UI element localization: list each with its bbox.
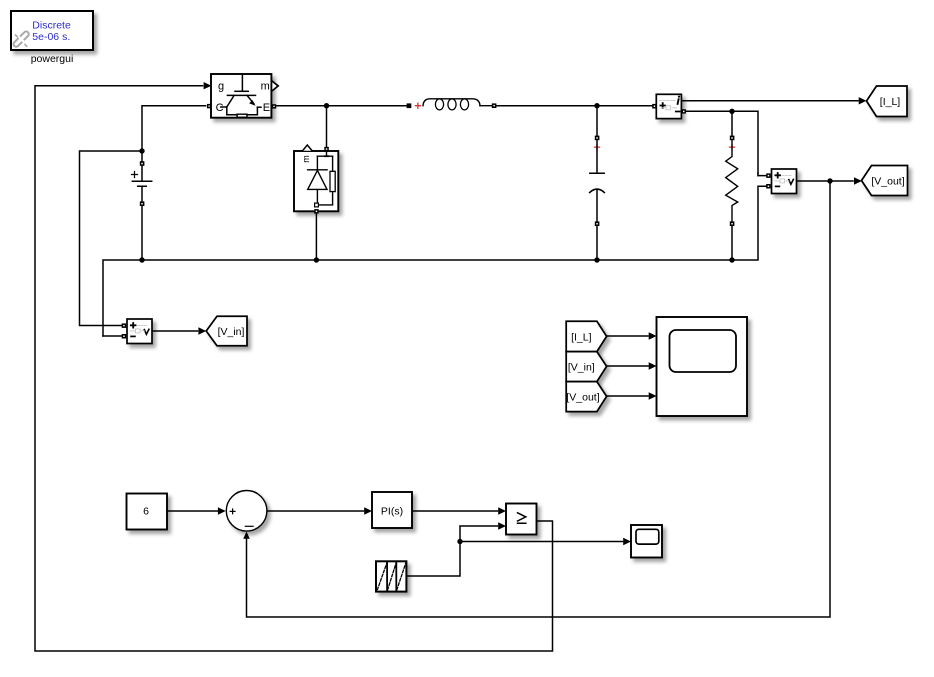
wire gate PWM feedback loop (left rail and bottom rail): [35, 86, 553, 651]
capacitor bottom port square: [595, 221, 600, 226]
svg-text:C: C: [216, 102, 224, 114]
node bus capacitor junction: [594, 257, 599, 262]
svg-text:6: 6: [143, 506, 149, 518]
wire bus stub to V_in minus: [103, 335, 121, 337]
IGBT E port square: [272, 104, 276, 108]
transistor IGBT block: [207, 74, 278, 118]
wire from I_L tag to scope: [607, 335, 648, 337]
arrowhead scope input 2: [649, 362, 657, 369]
from tag V_in: [566, 352, 606, 382]
voltage meas plus port square: [766, 173, 771, 178]
arrowhead into IGBT gate g: [204, 82, 212, 89]
diode internal pin mark: [325, 155, 328, 157]
wire current meas i signal to I_L goto: [681, 100, 858, 102]
sawtooth generator block: [376, 561, 406, 591]
wire from V_in tag to scope: [607, 365, 648, 367]
diode internal node square: [315, 203, 319, 207]
wire current meas minus output to load node: [686, 111, 766, 175]
capacitor plates: [590, 140, 604, 173]
svg-text:powergui: powergui: [31, 53, 74, 65]
diode m port chevron: [302, 145, 312, 151]
wire capacitor top drop: [596, 106, 598, 136]
relational operator block >=: [506, 504, 537, 535]
inductor plus polarity mark: [415, 103, 420, 108]
svg-text:[V_in]: [V_in]: [568, 362, 595, 374]
V_in meas plus port square: [122, 323, 127, 328]
wire V_in measurement output to V_in goto: [152, 330, 198, 332]
arrowhead scope input 3: [649, 392, 657, 399]
wire V_out feedback down and across to sum: [247, 181, 831, 617]
arrowhead into sum bottom input: [243, 532, 250, 539]
wire from V_out tag to scope: [607, 395, 648, 397]
resistor zigzag: [726, 140, 738, 221]
powergui block: [11, 11, 93, 65]
capacitor plus polarity mark: [595, 145, 600, 150]
svg-text:[V_in]: [V_in]: [218, 326, 245, 338]
arrowhead into PI controller: [364, 507, 372, 514]
arrowhead into relational operator input 1: [498, 507, 506, 514]
wire junction battery to V_in plus: [80, 151, 143, 326]
arrowhead inside IGBT at emitter: [249, 100, 255, 106]
node battery-top junction: [139, 148, 144, 153]
svg-text:[I_L]: [I_L]: [880, 96, 901, 108]
capacitor top port square: [595, 136, 600, 141]
current meas minus port square: [682, 109, 686, 113]
inductor right port square: [492, 103, 497, 108]
resistor bottom port square: [730, 221, 735, 226]
from tag V_out: [566, 382, 606, 412]
node PWM scope tap junction: [457, 539, 462, 544]
battery plates: [132, 166, 151, 204]
svg-text:E: E: [263, 102, 270, 114]
node bus diode junction: [314, 257, 319, 262]
arrowhead into I_L goto: [859, 97, 867, 104]
svg-text:PI(s): PI(s): [381, 506, 403, 518]
wire sum to PI controller: [267, 510, 363, 512]
battery DC voltage source: [132, 161, 152, 206]
wire diode bottom drop: [315, 214, 317, 260]
constant block 6: [127, 494, 168, 530]
resistor load R: [726, 136, 738, 226]
wire IGBT E to inductor: [276, 105, 406, 107]
capacitor C: [590, 136, 605, 226]
node load top junction: [729, 109, 734, 114]
node V_out feedback junction: [827, 178, 832, 183]
voltage measurement block V_out: [766, 169, 796, 194]
wire V measurement output to V_out goto: [797, 180, 854, 182]
wire battery top to IGBT C: [142, 106, 206, 162]
arrowhead scope input 1: [649, 332, 657, 339]
svg-text:[V_out]: [V_out]: [871, 175, 904, 187]
svg-text:[I_L]: [I_L]: [571, 332, 592, 344]
scope block: [657, 317, 748, 416]
svg-text:[V_out]: [V_out]: [566, 391, 599, 403]
current measurement block i: [652, 94, 686, 118]
diode cathode port square (bottom): [314, 209, 319, 214]
wire constant to sum: [167, 510, 218, 512]
diode block with snubber: [294, 145, 338, 214]
svg-text:m: m: [261, 80, 270, 92]
battery bottom port square: [140, 201, 145, 206]
wire tap to small scope: [460, 541, 623, 543]
V_in meas minus port square: [122, 334, 127, 339]
inductor left port square (solid): [407, 103, 412, 108]
wire battery bottom lead: [141, 206, 143, 260]
arrowhead into small scope: [623, 538, 631, 545]
current meas plus port square: [652, 104, 656, 109]
arrowhead into relational operator input 2: [498, 522, 506, 529]
from tag I_L: [566, 321, 606, 351]
inductor coil: [423, 99, 480, 106]
arrowhead into V_in goto: [198, 327, 206, 334]
wire sawtooth to relational operator input 2: [407, 526, 498, 576]
voltage meas minus port square: [766, 184, 771, 189]
battery plus sign: [132, 172, 138, 178]
node top rail diode junction: [324, 103, 329, 108]
svg-text:g: g: [218, 80, 224, 92]
node bus resistor junction: [729, 257, 734, 262]
wire diode top drop: [326, 106, 328, 147]
resistor top port square: [730, 136, 735, 141]
goto tag V_out: [862, 166, 908, 196]
node top rail capacitor junction: [594, 103, 599, 108]
goto tag V_in: [206, 316, 247, 346]
small scope block PWM: [631, 525, 662, 558]
battery top port square: [140, 161, 145, 166]
svg-text:m: m: [301, 155, 311, 163]
resistor plus polarity mark: [730, 145, 735, 150]
wire load resistor top drop: [731, 111, 733, 135]
node bus battery junction: [139, 257, 144, 262]
svg-text:5e-06 s.: 5e-06 s.: [32, 31, 70, 43]
voltage measurement block V_in: [122, 319, 152, 344]
wire inductor to current measurement: [496, 105, 652, 107]
IGBT m output port chevron: [272, 81, 278, 90]
inductor L: [407, 99, 497, 110]
wire capacitor bottom lead: [596, 226, 598, 260]
arrowhead into V_out goto: [854, 177, 862, 184]
sum block: [226, 491, 267, 532]
arrowhead into sum left input: [218, 507, 226, 514]
wire load resistor bottom lead: [731, 226, 733, 260]
svg-text:Discrete: Discrete: [32, 20, 71, 32]
PI controller block: [372, 492, 412, 528]
wire PI controller to relational operator input 1: [412, 510, 498, 512]
IGBT C port square: [207, 104, 211, 108]
goto tag I_L: [867, 86, 908, 117]
diode anode port square (top): [324, 147, 329, 152]
wire bottom bus: [103, 186, 766, 336]
